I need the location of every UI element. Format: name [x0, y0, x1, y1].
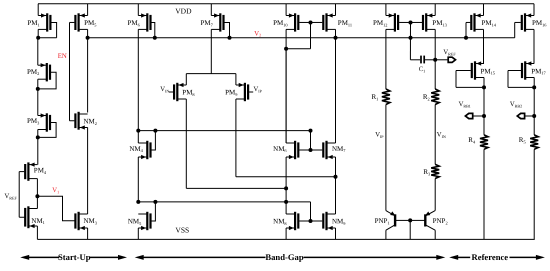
svg-text:PNP1: PNP1	[375, 217, 390, 225]
svg-text:VDD: VDD	[175, 6, 192, 15]
svg-text:VSS: VSS	[175, 226, 189, 235]
svg-text:Band-Gap: Band-Gap	[265, 252, 303, 262]
svg-text:Reference: Reference	[472, 252, 509, 262]
svg-text:PNP2: PNP2	[433, 217, 448, 225]
svg-text:Start-Up: Start-Up	[58, 252, 91, 262]
svg-text:EN: EN	[58, 53, 67, 60]
